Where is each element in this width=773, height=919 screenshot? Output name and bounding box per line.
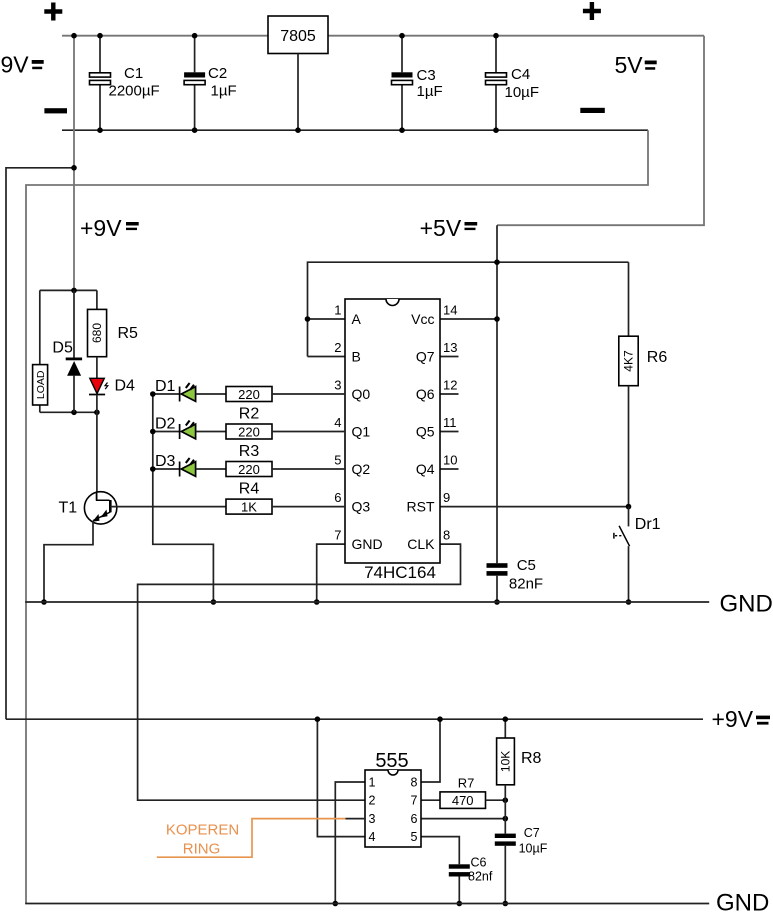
svg-text:82nF: 82nF: [509, 576, 543, 593]
svg-text:8: 8: [443, 528, 450, 543]
battery minus terminal left: [44, 108, 67, 113]
svg-text:1µF: 1µF: [417, 83, 443, 100]
svg-text:Q3: Q3: [352, 499, 371, 515]
svg-text:82nf: 82nf: [468, 870, 493, 884]
svg-text:GND: GND: [352, 536, 383, 552]
wire bottom power rail: [62, 129, 648, 131]
svg-text:R8: R8: [521, 750, 542, 767]
resistor R2: [226, 387, 272, 402]
resistor R8: [504, 719, 506, 738]
resistor R4: [226, 462, 272, 477]
svg-text:D3: D3: [155, 453, 176, 470]
svg-text:Dr1: Dr1: [635, 516, 661, 533]
svg-text:C5: C5: [517, 557, 536, 574]
wire +9V bottom line: [6, 718, 703, 720]
wire pin1 A: [308, 318, 346, 320]
svg-text:555: 555: [375, 750, 408, 772]
svg-text:470: 470: [452, 793, 474, 808]
svg-text:Q4: Q4: [416, 461, 435, 477]
svg-text:4K7: 4K7: [622, 350, 636, 372]
svg-text:CLK: CLK: [407, 536, 435, 552]
svg-text:1µF: 1µF: [211, 83, 237, 100]
svg-text:D4: D4: [115, 378, 136, 395]
capacitor C7: [495, 834, 516, 838]
svg-text:RST: RST: [407, 499, 435, 515]
capacitor C3: [401, 36, 403, 73]
svg-text:4: 4: [334, 415, 341, 430]
battery minus terminal right: [580, 108, 605, 113]
wire pin7 GND: [317, 544, 345, 602]
wire load branch bottom: [40, 411, 97, 413]
svg-text:R4: R4: [239, 481, 260, 498]
svg-text:KOPEREN: KOPEREN: [166, 822, 239, 839]
svg-text:D1: D1: [155, 378, 176, 395]
svg-text:GND: GND: [720, 591, 773, 618]
svg-text:+5V: +5V: [420, 215, 462, 241]
svg-text:3: 3: [334, 378, 341, 393]
wire right +5V loop vertical: [497, 36, 704, 226]
wire +5V down x497: [496, 225, 498, 563]
svg-text:T1: T1: [59, 500, 78, 517]
wire +9V vertical x74: [73, 36, 75, 291]
wire GND rail bottom: [25, 903, 709, 905]
svg-text:LOAD: LOAD: [35, 370, 47, 399]
wire 555 pin8 to +9V: [364, 781, 366, 783]
wire pin8 CLK to 555 trigger: [138, 544, 461, 800]
svg-text:C6: C6: [471, 856, 487, 870]
svg-text:74HC164: 74HC164: [364, 563, 436, 582]
svg-text:5V: 5V: [615, 52, 644, 78]
svg-text:D2: D2: [155, 416, 176, 433]
resistor R5: [96, 290, 98, 309]
node junction x74 y167.8: [71, 165, 77, 171]
svg-text:Q6: Q6: [416, 386, 435, 402]
capacitor C6: [449, 864, 470, 868]
wire pin14 Vcc: [440, 318, 497, 320]
svg-text:R2: R2: [239, 406, 260, 423]
battery plus terminal left: [44, 3, 62, 21]
svg-text:6: 6: [334, 490, 341, 505]
svg-text:6: 6: [411, 812, 418, 826]
svg-text:+9V: +9V: [712, 706, 754, 732]
resistor R6: [628, 262, 630, 336]
wire 555 pin1 to GND: [335, 782, 365, 904]
svg-text:+9V: +9V: [80, 215, 122, 241]
wire 555 pin4 reset to +9V: [317, 719, 365, 836]
svg-text:3: 3: [369, 812, 376, 826]
wire +9V feed left drop: [6, 168, 74, 719]
svg-text:GND: GND: [716, 890, 769, 917]
capacitor C4: [495, 36, 497, 73]
wire load branch top: [40, 289, 97, 291]
wire pin12 stub: [440, 393, 459, 395]
svg-text:7805: 7805: [280, 28, 316, 45]
regulator 7805: [268, 16, 328, 54]
wire T1 emitter: [44, 521, 93, 602]
wire pin2 B: [308, 356, 346, 358]
svg-text:2: 2: [369, 794, 376, 808]
svg-text:12: 12: [443, 378, 457, 393]
svg-text:C7: C7: [524, 826, 540, 840]
wire 555 pin3 output stub: [346, 818, 366, 820]
svg-text:2200µF: 2200µF: [109, 83, 160, 100]
svg-text:7: 7: [411, 794, 418, 808]
IC U1 74HC164 body: [345, 299, 440, 563]
wire pin9 RST: [440, 506, 629, 508]
svg-text:2: 2: [334, 340, 341, 355]
svg-text:C3: C3: [417, 67, 436, 84]
svg-text:Q5: Q5: [416, 424, 435, 440]
transistor T1 phototransistor: [96, 412, 98, 492]
svg-text:8: 8: [411, 776, 418, 790]
LED D3: [153, 468, 180, 470]
svg-text:680: 680: [90, 323, 104, 343]
svg-text:10: 10: [443, 453, 457, 468]
load box: [39, 290, 41, 364]
wire minus return route: [26, 130, 648, 903]
svg-text:9V: 9V: [1, 52, 30, 78]
capacitor C2: [194, 36, 196, 73]
svg-text:14: 14: [443, 303, 457, 318]
wire R8 node down: [504, 800, 506, 833]
svg-text:Q7: Q7: [416, 349, 435, 365]
LED D1: [153, 393, 180, 395]
svg-text:220: 220: [238, 462, 260, 477]
LED D2: [153, 431, 180, 433]
resistor 1K base: [226, 499, 272, 514]
capacitor C1: [99, 36, 101, 73]
resistor R3: [226, 424, 272, 439]
svg-text:C1: C1: [124, 65, 143, 82]
battery plus terminal right: [583, 2, 601, 20]
svg-text:R7: R7: [458, 776, 475, 791]
svg-text:Vcc: Vcc: [411, 311, 434, 327]
svg-text:4: 4: [369, 830, 376, 844]
wire 555 pin6: [421, 818, 505, 820]
svg-text:9: 9: [443, 490, 450, 505]
resistor R7: [440, 792, 486, 809]
wire 555 pin5 to C6: [421, 837, 459, 865]
wire top +9V rail: [62, 35, 704, 37]
node junction x497 y262: [494, 259, 500, 265]
capacitor C5: [487, 563, 508, 568]
svg-text:11: 11: [443, 415, 457, 430]
svg-text:A: A: [352, 311, 362, 327]
svg-text:13: 13: [443, 340, 457, 355]
wire 555 pin7 to R7: [421, 799, 440, 801]
svg-text:10µF: 10µF: [519, 842, 548, 856]
wire koperen ring orange: [157, 819, 346, 858]
svg-text:220: 220: [238, 387, 260, 402]
diode D5: [73, 290, 75, 358]
wire pin10 stub: [440, 468, 459, 470]
svg-text:R3: R3: [239, 443, 260, 460]
svg-text:C2: C2: [208, 65, 227, 82]
LED D4: [96, 357, 98, 379]
svg-text:R5: R5: [118, 325, 139, 342]
svg-text:7: 7: [334, 528, 341, 543]
svg-text:Q2: Q2: [352, 461, 371, 477]
svg-text:D5: D5: [52, 340, 73, 357]
wire T1 base: [110, 506, 226, 508]
wire pin13 stub: [440, 356, 459, 358]
svg-text:RING: RING: [183, 841, 221, 858]
svg-text:5: 5: [334, 453, 341, 468]
svg-text:220: 220: [238, 424, 260, 439]
wire +5V distribution: [308, 262, 629, 356]
svg-text:10K: 10K: [499, 751, 513, 772]
wire pin11 stub: [440, 431, 459, 433]
svg-text:B: B: [352, 349, 361, 365]
svg-text:1K: 1K: [241, 499, 257, 514]
svg-text:R6: R6: [647, 349, 668, 366]
555 IC box: [365, 770, 421, 847]
svg-text:1: 1: [334, 303, 341, 318]
wire GND rail mid: [25, 601, 709, 603]
node junction x74 top rail: [71, 33, 77, 39]
svg-text:Q0: Q0: [352, 386, 371, 402]
svg-text:C4: C4: [511, 66, 530, 83]
LED column wire: [153, 394, 214, 602]
switch Dr1: [628, 507, 630, 527]
svg-text:10µF: 10µF: [505, 84, 540, 101]
svg-text:1: 1: [369, 776, 376, 790]
svg-text:5: 5: [411, 830, 418, 844]
svg-text:Q1: Q1: [352, 424, 371, 440]
